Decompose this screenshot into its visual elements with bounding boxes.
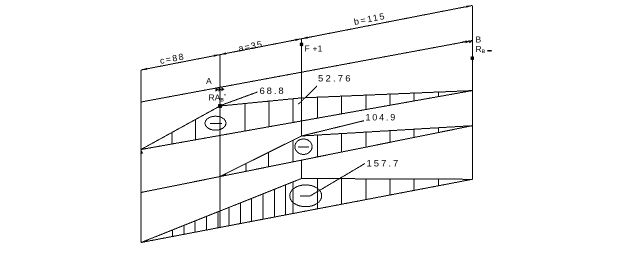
svg-text:68.8: 68.8: [260, 86, 286, 97]
svg-text:157.7: 157.7: [367, 159, 401, 170]
svg-text:52.76: 52.76: [318, 74, 353, 85]
svg-text:F +1: F +1: [305, 44, 323, 54]
svg-text:104.9: 104.9: [366, 113, 398, 123]
svg-text:A: A: [206, 76, 212, 86]
